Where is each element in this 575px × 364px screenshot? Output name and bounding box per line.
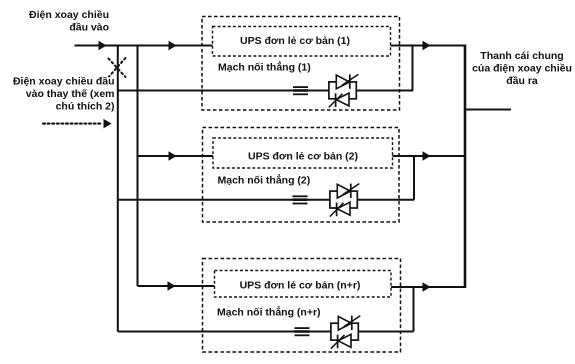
static switch 1	[329, 74, 359, 107]
wire output stub	[465, 109, 511, 111]
arrowhead into UPS n+r	[168, 282, 175, 290]
three-phase mark 1	[293, 87, 308, 94]
svg-text:vào thay thế (xem: vào thay thế (xem	[26, 88, 115, 100]
wire bypass3 join vertical	[413, 287, 415, 332]
dashed outer box group 2	[203, 128, 400, 223]
wire UPS2 output to bus	[393, 155, 466, 157]
arrowhead UPS2 output to bus	[423, 152, 430, 160]
wire UPS1 output to bus	[391, 45, 466, 47]
dashed box UPS unit 1	[213, 27, 391, 57]
wire AC input main	[75, 45, 213, 47]
wire bypass1 join vertical	[412, 46, 414, 91]
wire UPS3 output to bus	[391, 286, 465, 288]
static switch 2	[330, 184, 360, 217]
arrowhead into UPS 2	[169, 152, 176, 160]
svg-text:của điện xoay chiều: của điện xoay chiều	[472, 63, 572, 75]
dotted arrow alternate input	[43, 119, 111, 127]
wire bypass2 join vertical	[413, 156, 415, 200]
three-phase mark 3	[295, 328, 310, 335]
output AC bus vertical	[464, 45, 467, 289]
svg-text:UPS đơn lẻ cơ bản (2): UPS đơn lẻ cơ bản (2)	[248, 151, 358, 163]
cross mark on alternate input	[109, 58, 126, 77]
svg-text:Mạch nối thẳng (1): Mạch nối thẳng (1)	[218, 61, 311, 74]
wire bypass 3	[118, 331, 414, 333]
svg-text:chú thích 2): chú thích 2)	[56, 101, 115, 113]
arrowhead into UPS 1	[169, 41, 176, 49]
svg-text:Thanh cái chung: Thanh cái chung	[480, 50, 563, 62]
wire bypass 2	[118, 199, 414, 201]
svg-text:Mạch nối thẳng (n+r): Mạch nối thẳng (n+r)	[217, 306, 321, 319]
dashed outer box group 1	[202, 17, 400, 111]
static switch 3	[331, 316, 361, 349]
svg-text:UPS đơn lẻ cơ bản (n+r): UPS đơn lẻ cơ bản (n+r)	[240, 280, 361, 292]
three-phase mark 2	[293, 196, 308, 203]
wire main AC bus vertical	[137, 46, 139, 287]
dashed box UPS unit 3	[215, 271, 392, 298]
wire UPS2 input	[138, 155, 214, 157]
dashed outer box group 3	[203, 259, 401, 353]
dashed box UPS unit 2	[213, 138, 393, 168]
wire UPS3 input	[138, 285, 215, 287]
svg-text:Điện xoay chiều: Điện xoay chiều	[29, 9, 109, 21]
svg-text:UPS đơn lẻ cơ bản (1): UPS đơn lẻ cơ bản (1)	[240, 35, 350, 47]
wire bypass 1	[118, 90, 413, 92]
svg-text:Mạch nối thẳng (2): Mạch nối thẳng (2)	[218, 174, 311, 187]
arrowhead on AC input wire	[99, 41, 106, 49]
wire alternate AC bus vertical	[117, 46, 119, 332]
arrowhead UPS1 output to bus	[423, 41, 430, 49]
arrowhead UPS3 output to bus	[423, 283, 430, 291]
svg-text:đầu ra: đầu ra	[506, 75, 538, 87]
svg-text:Điện xoay chiều đầu: Điện xoay chiều đầu	[13, 76, 115, 88]
svg-text:đầu vào: đầu vào	[69, 22, 109, 34]
